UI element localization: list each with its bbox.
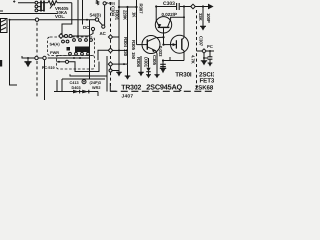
FET gate bar (175, 40, 177, 48)
junction (155, 5, 157, 7)
wire TR301 collector to rail (171, 17, 184, 19)
capacitor C303 plate (178, 3, 180, 10)
svg-text:TR302: TR302 (121, 84, 141, 91)
capacitor plate (208, 58, 213, 60)
diode bar (79, 90, 81, 94)
junction (135, 6, 137, 8)
capacitor plate (208, 56, 213, 58)
wire stub (97, 92, 99, 97)
ground (146, 74, 151, 76)
junction (126, 6, 128, 8)
junction (162, 36, 164, 38)
svg-text:R306: R306 (136, 57, 141, 68)
wire (10, 20, 18, 85)
junction (203, 57, 205, 59)
diode bar (146, 71, 150, 73)
junction (118, 49, 120, 51)
wire (104, 5, 106, 25)
lamp dot (83, 81, 85, 83)
wire source return (163, 60, 184, 62)
junction (123, 63, 125, 65)
wire (48, 57, 90, 59)
wire (113, 63, 127, 65)
connector diamond (59, 34, 63, 39)
switch contact (69, 52, 72, 55)
wire (62, 3, 72, 35)
wire (162, 61, 164, 69)
ground (208, 63, 212, 66)
wire resistor column R302 (127, 7, 129, 64)
diode bar (88, 90, 90, 94)
junction (209, 50, 211, 52)
dashed board bottom border (110, 90, 214, 92)
wire (62, 78, 105, 80)
junction (162, 59, 164, 61)
wire (127, 64, 129, 76)
wire drain feed (183, 7, 185, 38)
svg-text:C303: C303 (163, 1, 175, 7)
junction (58, 61, 60, 63)
svg-text:S4(A): S4(A) (50, 41, 61, 46)
junction (73, 57, 75, 59)
switch lever (98, 21, 102, 25)
FET gate wire (164, 44, 177, 46)
junction (9, 19, 11, 21)
node terminal circle (69, 35, 72, 38)
switch contact AC (102, 25, 105, 28)
node terminal circle (43, 56, 46, 59)
text labels (42, 1, 218, 99)
wire top rail right (156, 6, 176, 8)
switch contact (73, 39, 76, 42)
ground (200, 25, 206, 27)
signal arrow (208, 4, 214, 10)
wire (82, 0, 84, 25)
wire (72, 35, 83, 37)
wire (89, 20, 91, 79)
svg-text:D403: D403 (72, 86, 81, 90)
ground (139, 73, 143, 77)
svg-text:0.022/P: 0.022/P (162, 12, 178, 17)
node terminal circle (65, 60, 68, 63)
TR302 emitter (147, 47, 157, 54)
node terminal circle (35, 5, 38, 8)
diode D404 (82, 90, 88, 94)
svg-text:R304: R304 (123, 37, 128, 48)
lamp symbol (82, 80, 86, 84)
wire (44, 60, 46, 100)
ground (201, 27, 206, 31)
wire (69, 62, 99, 72)
svg-text:PC-519: PC-519 (42, 66, 55, 70)
FET drain lead (182, 38, 184, 40)
wiper arrowhead (52, 3, 54, 5)
node terminal circle (109, 69, 112, 72)
switch body small (67, 47, 71, 51)
wire (57, 2, 72, 4)
capacitor plate (160, 63, 166, 65)
node terminal circle (35, 56, 38, 59)
svg-text:2SC945AQ: 2SC945AQ (146, 82, 182, 91)
FET TR303 (171, 35, 189, 53)
emitter resistor column (140, 56, 142, 72)
switch body (75, 47, 90, 53)
junction (86, 19, 88, 21)
dashed board line PC-303 (110, 2, 112, 89)
switch contact DC (91, 27, 94, 30)
connector diamond (108, 62, 112, 67)
switch contact (85, 39, 88, 42)
ground (147, 75, 151, 78)
wire resistor R308 (202, 7, 204, 27)
svg-text:VOL.: VOL. (55, 14, 65, 19)
TR301 base bar (158, 26, 170, 28)
switch box S4(B) lower dashed enclosure (57, 56, 95, 70)
wire (112, 70, 119, 72)
wire (209, 51, 211, 57)
wire (27, 58, 29, 62)
ground (202, 61, 207, 65)
switch S4(B) upper contact (95, 18, 98, 21)
wire (83, 31, 94, 36)
svg-text:FET30: FET30 (200, 77, 215, 84)
wire (38, 2, 48, 4)
wire (22, 56, 35, 58)
wire (155, 7, 157, 21)
ground (160, 67, 166, 69)
wire (18, 2, 35, 4)
diode D403 (73, 90, 79, 94)
svg-text:J407: J407 (122, 93, 134, 99)
svg-text:P4(B): P4(B) (106, 2, 115, 6)
wire (63, 35, 64, 37)
board corner (110, 83, 116, 91)
svg-text:150: 150 (131, 52, 136, 60)
TR302 base wire (137, 44, 148, 46)
junction (118, 6, 120, 8)
wire supply rail (119, 6, 137, 8)
polarity mark (13, 0, 15, 2)
wire stub (169, 57, 171, 61)
wire emitter (156, 54, 158, 75)
junction (162, 44, 164, 46)
TR302 base bar (146, 39, 148, 49)
transistor TR301 (155, 17, 171, 33)
capacitor bar (40, 1, 42, 12)
ground (117, 73, 121, 77)
wire (195, 6, 208, 8)
svg-text:D301: D301 (143, 57, 148, 68)
ground (138, 71, 144, 73)
junction (77, 35, 79, 37)
resistor VR405 zigzag (48, 1, 57, 5)
wire (180, 6, 191, 8)
connector hatch (1, 24, 6, 27)
ground (208, 62, 213, 64)
node terminal circle (35, 1, 38, 4)
TR302 emitter arrow (152, 49, 156, 52)
wire (113, 36, 119, 38)
wire (38, 57, 43, 59)
switch contact (81, 52, 84, 55)
wire resistor column R303 (136, 0, 138, 45)
ground (155, 75, 159, 78)
shield dashed line (36, 23, 38, 56)
svg-text:330: 330 (123, 49, 128, 57)
scan mark left edge (0, 60, 2, 67)
wire (209, 59, 211, 62)
junction (27, 57, 29, 59)
svg-text:R301: R301 (115, 10, 120, 21)
svg-text:TR30I: TR30I (175, 71, 192, 78)
capacitor plate (160, 66, 166, 68)
dashed board line right (196, 10, 198, 89)
capacitor bar (43, 1, 45, 12)
capacitor C303 plate (176, 3, 178, 10)
wire (98, 50, 109, 60)
node terminal circle (65, 35, 68, 38)
wire (0, 10, 3, 12)
wire (38, 9, 44, 11)
svg-text:S4(B): S4(B) (90, 12, 102, 17)
ground (161, 69, 166, 74)
wire (70, 74, 107, 76)
transistor TR302 (142, 36, 160, 54)
wire (148, 72, 150, 75)
svg-text:C305: C305 (152, 55, 157, 66)
wire (197, 50, 215, 52)
wire (203, 53, 205, 60)
svg-text:2SK68: 2SK68 (195, 84, 214, 91)
wire (0, 13, 57, 15)
wire (204, 57, 208, 59)
switch contact (75, 52, 78, 55)
FET source lead (182, 49, 184, 61)
wire (163, 28, 165, 44)
ground (125, 75, 131, 77)
TR301 emitter arrow (158, 24, 162, 28)
wire (61, 79, 63, 92)
svg-text:C307: C307 (199, 36, 204, 47)
svg-text:R305: R305 (131, 40, 136, 51)
node terminal circle (103, 2, 106, 5)
switch contact (66, 40, 69, 43)
rotated value labels (111, 4, 211, 68)
wire (106, 56, 108, 92)
wire (56, 80, 58, 92)
svg-text:4.7K: 4.7K (190, 55, 195, 65)
svg-text:220K: 220K (123, 10, 128, 21)
svg-text:DC: DC (83, 25, 90, 30)
FET channel bar (181, 39, 183, 50)
svg-text:100P: 100P (206, 13, 211, 23)
connector diamond (108, 35, 112, 39)
ground (154, 74, 159, 76)
wire (113, 49, 127, 51)
node terminal circle (35, 9, 38, 12)
svg-text:33K: 33K (198, 13, 203, 22)
junction (183, 5, 185, 7)
junction (183, 16, 185, 18)
svg-text:(24P)3: (24P)3 (90, 81, 101, 85)
FET gate arrow (173, 43, 177, 46)
connector diamond (202, 49, 206, 53)
TR301 lead (168, 19, 171, 27)
ground (201, 60, 207, 62)
connector diamond (108, 48, 112, 53)
wire (54, 91, 98, 93)
ground (25, 62, 31, 67)
ground (116, 71, 122, 73)
svg-text:C413: C413 (70, 81, 79, 85)
wire main bus (10, 19, 96, 21)
junction (79, 57, 81, 59)
svg-text:AC: AC (100, 31, 107, 36)
switch contact (87, 52, 90, 55)
switch contact (79, 39, 82, 42)
svg-text:WR2: WR2 (92, 86, 100, 90)
TR301 lead (156, 21, 159, 28)
wire (148, 58, 150, 68)
TR302 collector (147, 37, 163, 41)
wire (38, 6, 41, 8)
junction (202, 5, 204, 7)
connector hatch (1, 20, 6, 23)
connector diamond (191, 4, 196, 9)
resistor small zigzag (96, 0, 98, 5)
switch contact (62, 40, 65, 43)
connector hatch (1, 28, 6, 31)
wire (57, 61, 66, 63)
svg-text:R307: R307 (139, 4, 144, 15)
switch contact (90, 39, 93, 42)
svg-text:PWR: PWR (50, 50, 59, 55)
ground (24, 61, 31, 63)
connector jack J401 (1, 19, 8, 33)
potentiometer wiper arrow (50, 4, 53, 8)
wire (77, 0, 79, 39)
wire resistor column R301 (118, 0, 120, 72)
diode D301 (146, 68, 150, 72)
node PC board terminal (35, 18, 38, 21)
svg-text:0.033: 0.033 (158, 46, 163, 57)
svg-text:PC: PC (207, 44, 213, 49)
ground (125, 76, 129, 80)
shield dashed line (36, 61, 38, 97)
switch box S4(A) dashed enclosure (48, 37, 95, 56)
